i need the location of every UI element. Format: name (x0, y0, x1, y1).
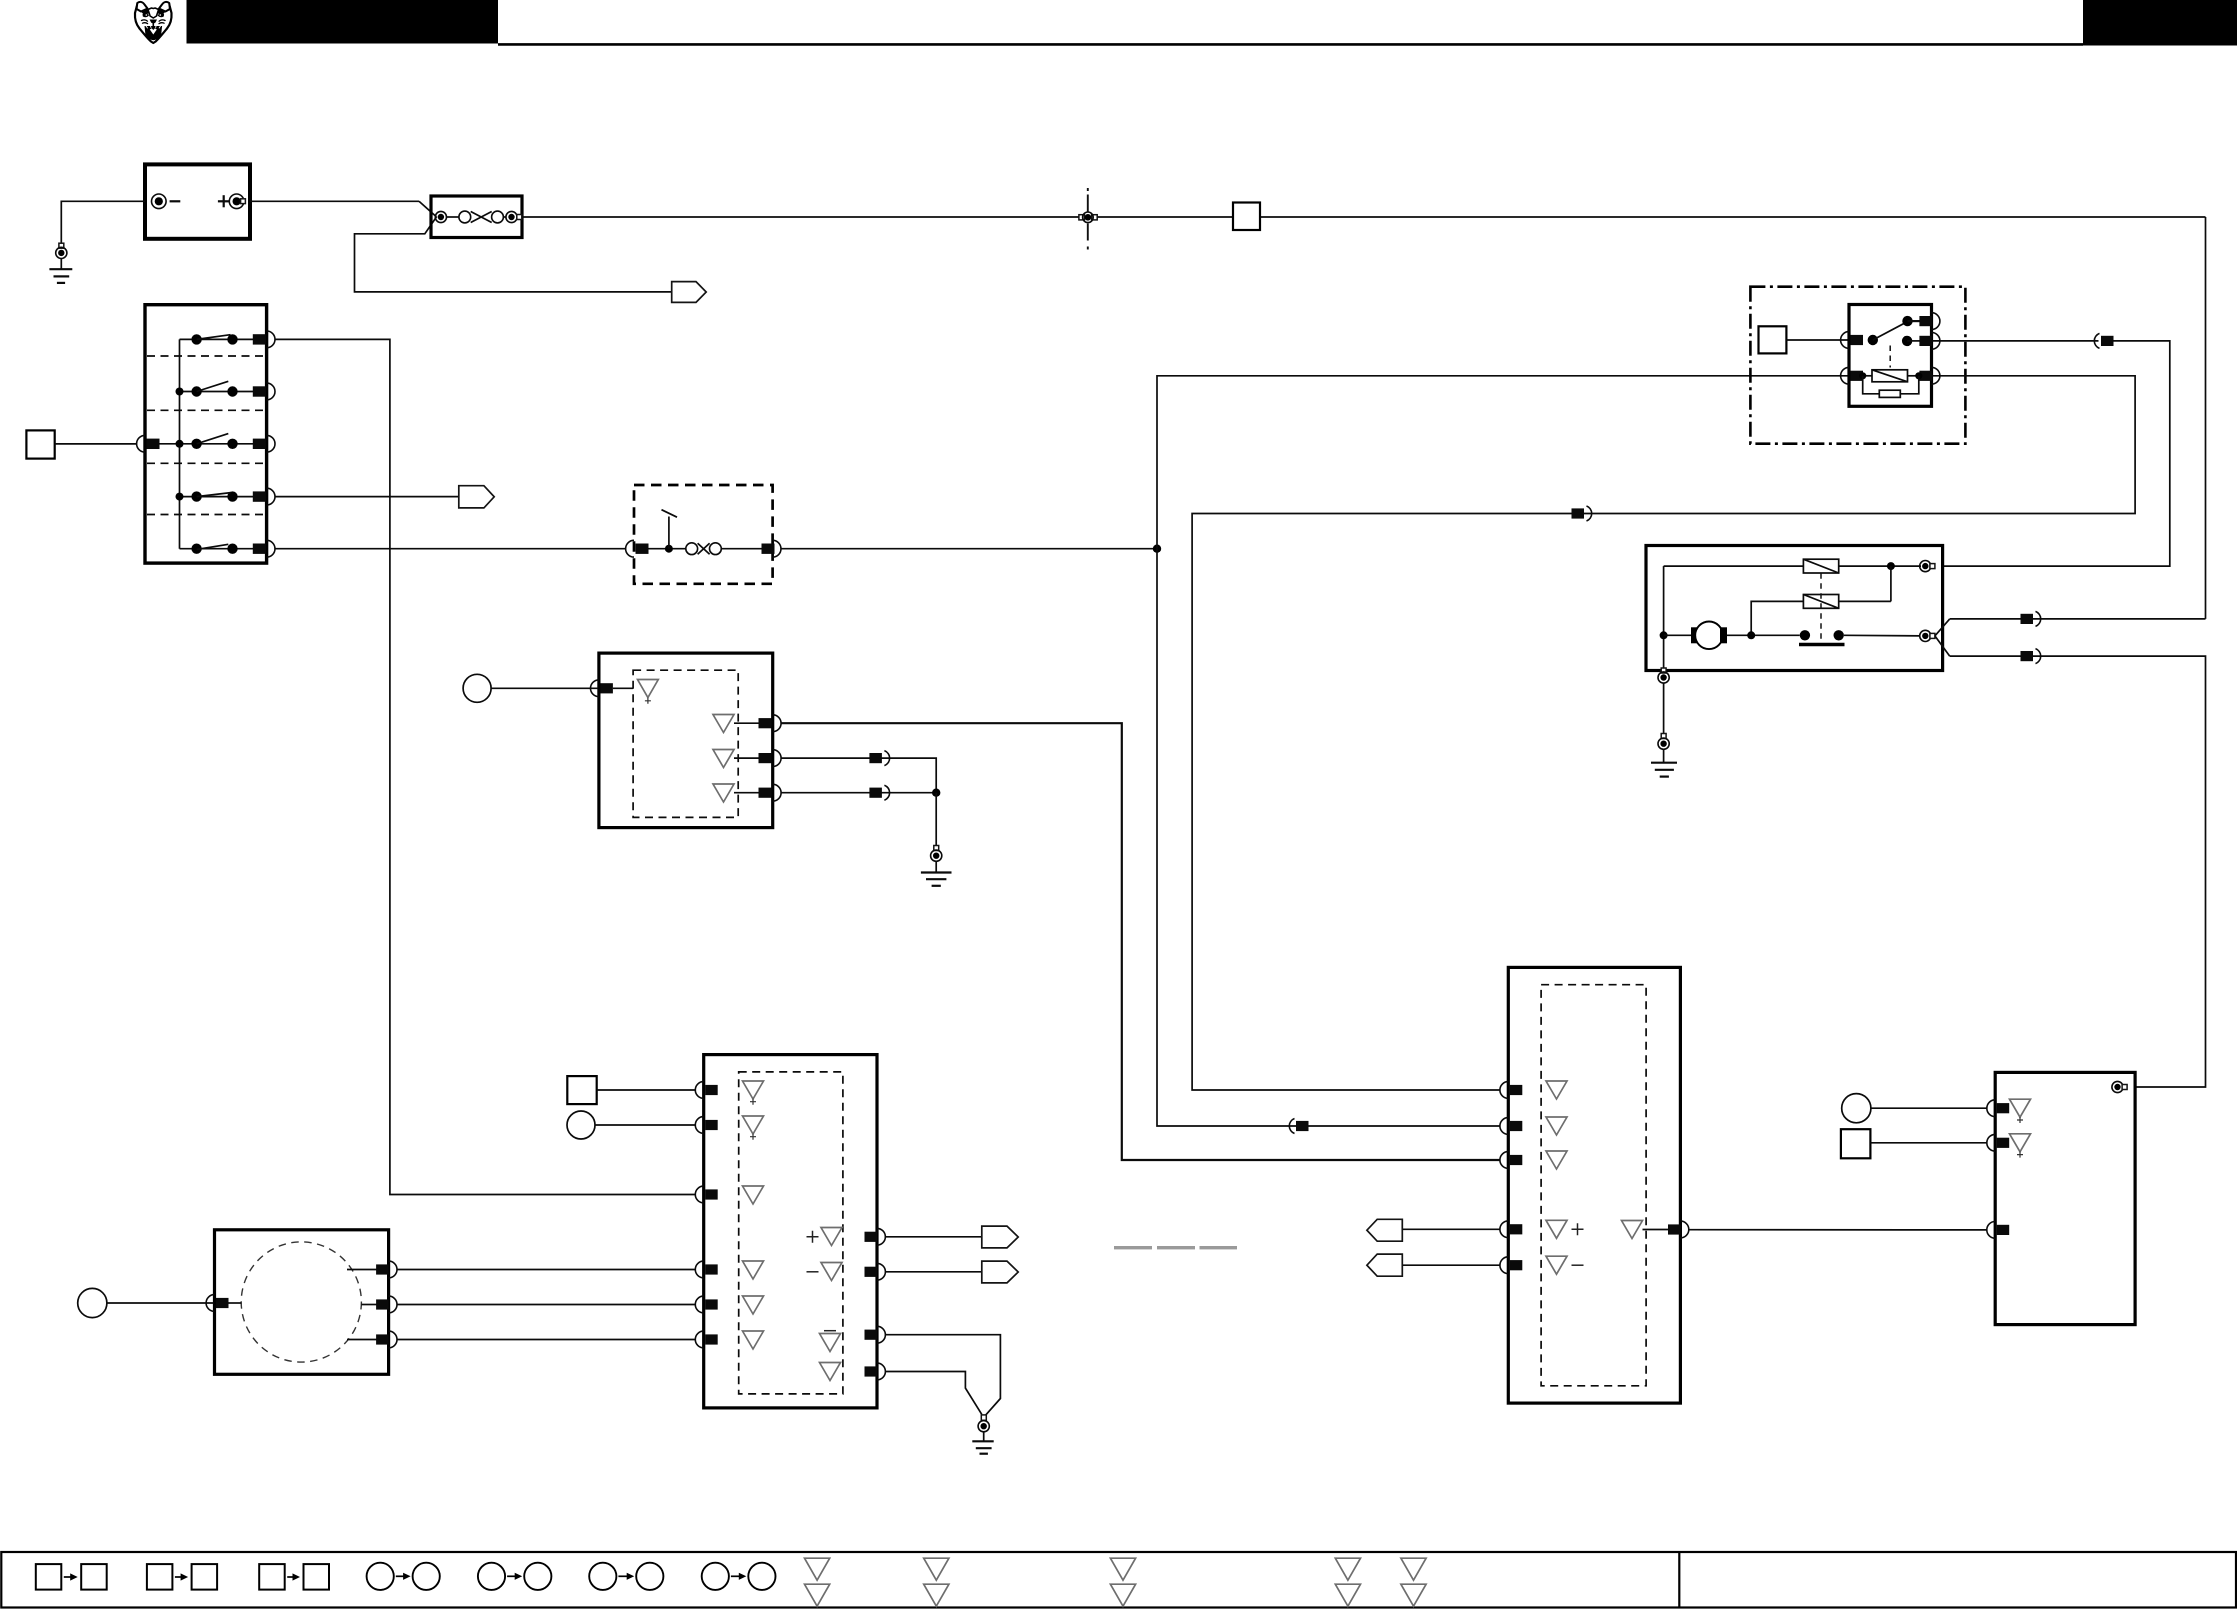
pump top feed pin (1920, 561, 1931, 572)
U2 left pin (591, 680, 599, 697)
SW1 row2 contact (180, 391, 255, 393)
U6 left pin (206, 1295, 214, 1312)
wire arrow to U4 P5 (1402, 1264, 1500, 1266)
K1 coil right pin (1919, 371, 1932, 381)
legend divider (1678, 1552, 1680, 1608)
controller U4 box (1508, 967, 1680, 1403)
ground connector eyelet (59, 243, 64, 248)
wire U6 p2 to U3 L5 (397, 1304, 695, 1306)
U5 pin P2 (1987, 1134, 1995, 1151)
wire U3 R4 to ground funnel (886, 1372, 982, 1415)
connector circle C3 (567, 1111, 595, 1139)
U2 pin R1 (713, 715, 734, 733)
U4 pin P4 (1500, 1221, 1508, 1238)
connector arrow out R1 (982, 1226, 1018, 1248)
U6 reluctor dashed circle (241, 1242, 361, 1362)
SW1 row3 feed terminal (137, 435, 145, 452)
U6 pin p1 (347, 1269, 377, 1271)
SW1 inner gang bar (179, 339, 181, 548)
K1 armature dashed link (1889, 346, 1891, 368)
node J3 (1887, 562, 1895, 570)
wire U3 R3 to ground funnel (886, 1335, 1001, 1415)
pump internal top run (1664, 565, 1804, 567)
wire pump feed branch (1950, 618, 2206, 620)
in-line connector C7 (869, 753, 882, 763)
harness split dash-dot line (1087, 188, 1089, 250)
legend strip (1, 1552, 2236, 1608)
inertia switch SW2 dashed housing (634, 485, 773, 584)
connector code square S2 (26, 430, 54, 458)
ground drop G2 (935, 793, 937, 846)
connector code square S4 (1841, 1129, 1871, 1158)
legend triangle pair 1 (805, 1558, 830, 1606)
U5 feed pin (2112, 1081, 2123, 1092)
SW1 row5 contact (180, 548, 255, 550)
legend square pair 3 (259, 1564, 329, 1590)
wire pump sender branch (1950, 656, 2206, 1087)
K1 common pin (1841, 332, 1849, 349)
wire S4 to U5 P2 (1870, 1142, 1986, 1144)
legend circle pair 4 (702, 1563, 776, 1590)
U3 pin L3 (695, 1186, 703, 1203)
U4 pin P1 (1500, 1082, 1508, 1099)
connector arrow out (row4) (459, 486, 494, 508)
connector circle C5 (78, 1288, 107, 1317)
SW1 dashed detent separators (147, 355, 265, 357)
wire J1 down to controller pin (1157, 549, 1500, 1126)
motor M1 (1660, 631, 1668, 639)
SW2 left terminal (626, 540, 634, 557)
wire K1 coil return (1192, 376, 2135, 1090)
Y split wires (1935, 619, 1950, 636)
pump ground pin (1661, 668, 1666, 673)
ignition switch SW1 box (145, 305, 267, 563)
SW1 row1 contact (180, 338, 255, 340)
legend circle pair 3 (589, 1563, 663, 1590)
header rule (498, 43, 2083, 46)
U4 output pin (1622, 1221, 1643, 1239)
wire arrow to U4 P4 (1402, 1228, 1500, 1230)
U5 pin P3 (1987, 1222, 1995, 1239)
wire SW1 row5 to inertia switch (275, 548, 626, 550)
F1 right terminal (506, 211, 517, 222)
in-line connector C9 (2094, 333, 2099, 348)
jaguar growler logo (135, 2, 172, 43)
K1 NO pin (1902, 316, 1912, 326)
legend triangle pair 4 (1335, 1558, 1360, 1606)
ground G4 (972, 1440, 993, 1442)
in-line connector C6 (1289, 1119, 1294, 1134)
in-line connector C11 (2021, 614, 2034, 624)
wire branch to in-line arrow (355, 217, 672, 292)
connector circle C2 (463, 674, 491, 702)
option divider gray dashes (1114, 1246, 1152, 1249)
pump coil 2 (1803, 595, 1838, 609)
impact contact (1800, 630, 1810, 640)
U3 pin L2 (695, 1117, 703, 1134)
in-line connector C8 (869, 788, 882, 798)
pin symbol triangle + (638, 680, 659, 698)
K1 blade (1873, 322, 1908, 340)
wire U2 R2 to ground join (781, 758, 936, 793)
in-line connector C1 (1079, 215, 1085, 220)
ground G1 (49, 268, 72, 270)
wire U2 R3 to ground join (781, 792, 936, 794)
K1 output pin (1902, 336, 1912, 346)
legend triangle pair 2 (924, 1558, 949, 1606)
SW2 trip lever (665, 545, 673, 553)
title bar black (187, 0, 499, 44)
wire C4 to U5 P1 (1871, 1107, 1987, 1109)
wire U6 p3 to U3 L6 (397, 1339, 695, 1341)
F1 element (447, 216, 460, 218)
battery negative terminal (152, 194, 167, 209)
wire K1 output to pump (1932, 340, 2099, 342)
U3 pin L4 (695, 1261, 703, 1278)
wire C2 to U2 (491, 687, 598, 689)
legend triangle pair 3 (1110, 1558, 1135, 1606)
legend triangle pair 5 (1401, 1558, 1426, 1606)
relay K1 box (1849, 305, 1932, 407)
in-line connector C12 (2021, 651, 2034, 661)
main feed wire (522, 216, 2206, 218)
K1 coil (1872, 370, 1908, 382)
wire S3 to U3 L1 (597, 1089, 696, 1091)
U3 pin R1 (807, 1231, 819, 1243)
wire U2 R1 to controller P3 (781, 723, 1500, 1160)
connector code square S1 (1759, 326, 1787, 353)
fuel pump assembly box (1646, 546, 1943, 671)
pump left bus (1663, 566, 1665, 670)
U3 pin R2 (807, 1271, 819, 1273)
wire SW1 row1 to ECM pin (275, 339, 695, 1194)
ground G3 (1651, 762, 1677, 764)
component box U2 (599, 653, 773, 828)
SW2 fuse element (686, 543, 698, 555)
pump coil 1 (1803, 559, 1838, 573)
sensor U6 box (215, 1230, 389, 1375)
U3 pin L5 (695, 1296, 703, 1313)
U4 pin P2 (1500, 1118, 1508, 1135)
legend circle pair 2 (478, 1563, 552, 1590)
node J2 (932, 789, 940, 797)
connector arrow out (top) (672, 282, 707, 303)
wire U4 output to module U5 (1689, 1229, 1987, 1231)
U3 pin L6 (695, 1331, 703, 1348)
legend circle pair 1 (367, 1563, 440, 1590)
U4 pin P5 (1500, 1257, 1508, 1274)
ground eyelet (981, 1415, 986, 1420)
U2 pin R2 (713, 750, 734, 768)
K1 suppression resistor (1859, 372, 1866, 379)
SW1 row4 contact (180, 496, 255, 498)
legend square pair 1 (36, 1564, 107, 1590)
wire S2 to SW1 (55, 443, 137, 445)
U2 pin R3 (713, 784, 734, 802)
pump return pin (1920, 630, 1931, 641)
K1 coil left pin (1841, 367, 1849, 384)
connector arrow in P5 (1367, 1254, 1402, 1276)
battery positive terminal (218, 200, 229, 202)
wire C3 to U3 L2 (595, 1124, 695, 1126)
U3 pin L1 (695, 1082, 703, 1099)
header right black box (2083, 0, 2237, 46)
wire C5 to U6 (107, 1302, 214, 1304)
node J1 (1153, 545, 1161, 553)
ground eyelet (1661, 734, 1666, 739)
wire battery positive to fusible link (250, 200, 419, 202)
wire U6 p1 to U3 L4 (397, 1269, 695, 1271)
U4 pin P3 (1500, 1152, 1508, 1169)
connector arrow in P4 (1367, 1219, 1402, 1241)
F1 left terminal (435, 211, 446, 222)
wire S1 to relay K1 (1786, 339, 1849, 341)
in-line connector C10 (1572, 508, 1585, 518)
wire SW1 row4 to arrow (275, 496, 459, 498)
connector code square S3 (567, 1076, 596, 1104)
legend square pair 2 (147, 1564, 217, 1590)
U5 pin P1 (1987, 1100, 1995, 1117)
sender circle C4 (1842, 1094, 1871, 1123)
U6 pin p2 (361, 1304, 377, 1306)
in-line splice box (1233, 203, 1260, 231)
wire SW2 to junction (781, 548, 1157, 550)
feed drop right side (2205, 217, 2207, 619)
module U5 box (1995, 1072, 2135, 1324)
wire J1 up to relay coil (1157, 376, 1849, 549)
fusible link F1 box (431, 196, 522, 238)
wire battery negative to ground drop (61, 201, 145, 243)
U3 pin R4 (820, 1363, 841, 1381)
battery B1 (145, 164, 250, 238)
U3 pin R3 (824, 1330, 836, 1332)
SW2 right terminal (762, 544, 775, 554)
connector arrow out R2 (982, 1261, 1018, 1283)
U6 pin p3 (347, 1339, 377, 1341)
relay module dash-dot housing (1750, 287, 1965, 444)
ECM U3 box (704, 1055, 877, 1408)
